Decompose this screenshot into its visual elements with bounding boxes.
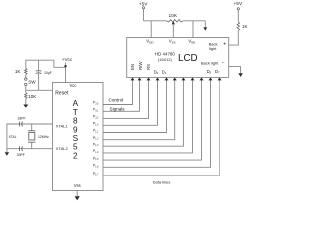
wire R/W line xyxy=(103,77,142,111)
wire bus end arrow xyxy=(203,21,207,31)
svg-text:T: T xyxy=(73,108,78,117)
wire backlight plus xyxy=(229,31,239,45)
svg-text:+5V: +5V xyxy=(234,1,243,7)
svg-text:33PF: 33PF xyxy=(17,153,25,157)
node Control Signals label xyxy=(109,98,126,112)
svg-text:Reset: Reset xyxy=(55,90,69,96)
wire XTAL2 xyxy=(7,148,53,150)
wire RS line xyxy=(103,77,151,118)
svg-text:+: + xyxy=(223,41,226,47)
ground chip Vss xyxy=(75,191,80,201)
wire D6 line xyxy=(103,77,213,167)
svg-text:light: light xyxy=(209,46,217,51)
svg-text:Vcc: Vcc xyxy=(70,83,77,88)
wire reset-node to chip xyxy=(26,86,53,93)
svg-text:2: 2 xyxy=(73,151,78,160)
wire VDD drop xyxy=(150,21,152,38)
svg-text:−: − xyxy=(222,60,225,66)
LCD module U2 HD44780 xyxy=(127,38,229,78)
wire pot bus xyxy=(144,20,206,22)
svg-text:R/W: R/W xyxy=(138,61,143,70)
capacitor C1 10uF xyxy=(36,60,52,90)
ground backlight xyxy=(238,70,243,77)
wire D1 line xyxy=(103,77,169,132)
resistor R2 10K xyxy=(25,93,38,100)
svg-text:10K: 10K xyxy=(169,13,178,19)
svg-text:XTAL1: XTAL1 xyxy=(56,123,69,128)
wire wiper to VSS xyxy=(172,24,174,38)
capacitor C3 33PF xyxy=(17,146,25,157)
svg-text:RS: RS xyxy=(146,64,151,70)
svg-text:A: A xyxy=(73,99,79,108)
wire +5V to bus xyxy=(143,9,145,21)
wire D5 line xyxy=(103,77,204,160)
svg-text:S: S xyxy=(73,134,79,143)
resistor R1 1K xyxy=(15,64,27,78)
svg-text:XTAL2: XTAL2 xyxy=(56,146,69,151)
power +5V left xyxy=(139,2,148,9)
svg-text:1K: 1K xyxy=(242,24,247,29)
svg-text:Data lines: Data lines xyxy=(153,179,171,184)
svg-text:Vss: Vss xyxy=(74,183,81,188)
svg-text:Control: Control xyxy=(109,98,124,103)
ground reset xyxy=(23,99,28,108)
microcontroller U1 AT89S52 xyxy=(53,83,104,191)
crystal X1 12MHz xyxy=(28,124,49,149)
svg-text:Signals: Signals xyxy=(110,107,126,112)
wire XTAL1 xyxy=(7,124,53,149)
power +5V right xyxy=(234,1,243,10)
svg-text:SW: SW xyxy=(28,79,36,84)
svg-text:12MHz: 12MHz xyxy=(38,135,49,139)
svg-text:9: 9 xyxy=(73,125,78,134)
potentiometer VR1 10K xyxy=(167,13,184,25)
node +Vcc xyxy=(62,57,73,67)
svg-text:+Vcc: +Vcc xyxy=(62,57,73,62)
wire D7 line xyxy=(103,77,222,175)
wire D3 line xyxy=(103,77,185,146)
wire VEE drop xyxy=(192,21,194,38)
svg-text:LCD: LCD xyxy=(178,53,198,64)
node XTAL xyxy=(9,135,17,139)
wire D2 line xyxy=(103,77,177,139)
svg-text:XTAL: XTAL xyxy=(9,135,17,139)
svg-text:Back light: Back light xyxy=(201,61,219,66)
svg-text:8: 8 xyxy=(73,117,78,126)
wire Vcc to chip xyxy=(65,67,67,82)
svg-text:10K: 10K xyxy=(28,94,37,99)
svg-text:33PF: 33PF xyxy=(17,116,25,120)
wire backlight minus xyxy=(229,67,241,70)
ground crystal xyxy=(5,149,9,156)
node Data lines label xyxy=(153,179,171,184)
wire D0 line xyxy=(103,77,160,125)
svg-text:10µF: 10µF xyxy=(44,71,52,75)
switch SW xyxy=(25,78,37,86)
wire D4 line xyxy=(103,77,195,152)
svg-text:1K: 1K xyxy=(15,69,22,74)
svg-text:EN: EN xyxy=(130,64,135,70)
svg-text:5: 5 xyxy=(73,143,78,152)
capacitor C2 33PF xyxy=(17,116,25,126)
resistor R3 1K xyxy=(237,10,247,31)
wire reset-top xyxy=(26,60,66,67)
svg-text:(16X12): (16X12) xyxy=(158,57,173,62)
wire EN line xyxy=(103,77,135,104)
